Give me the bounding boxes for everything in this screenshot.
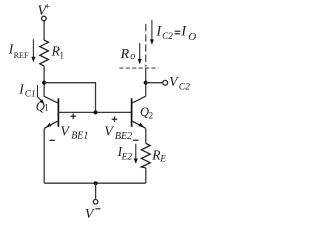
svg-text:E2: E2 — [121, 152, 133, 162]
label Q2 — [140, 105, 153, 120]
resistor RE — [141, 143, 150, 168]
label IE2 — [117, 144, 133, 162]
svg-text:C2: C2 — [179, 83, 190, 93]
svg-text:2: 2 — [149, 111, 154, 121]
wire Q2 collector up to VC2 node — [145, 69, 147, 97]
minus sign VBE1 — [50, 139, 55, 141]
svg-text:BE2: BE2 — [115, 131, 132, 142]
junction dot VC2 node — [144, 81, 148, 85]
dashed cut line (horizontal) for Ro — [119, 67, 158, 69]
current arrow IC1 (bent into collector) — [38, 85, 45, 104]
junction dot (collector of Q1 / tie to bases) — [42, 81, 46, 85]
label Ro — [120, 47, 136, 62]
current arrow IREF — [31, 39, 35, 62]
wire R1 to Q1 collector node — [43, 66, 45, 97]
label VC2 — [169, 74, 190, 92]
resistor R1 — [40, 40, 49, 66]
emitter arrow — [46, 123, 52, 127]
svg-text:V: V — [104, 125, 114, 140]
transistor Q1 (mirrored npn) — [44, 96, 58, 128]
junction dot at base node — [94, 110, 98, 114]
emitter arrow — [138, 123, 144, 127]
wire collector-base tie (horizontal + down to base node) — [44, 83, 95, 113]
label Q1 — [36, 99, 49, 113]
transistor Q2 (npn) — [132, 96, 146, 128]
minus sign VBE2 — [133, 139, 139, 141]
svg-text:E: E — [159, 154, 166, 164]
label RE — [151, 147, 166, 164]
current arrow IC2 — [150, 20, 154, 45]
bottom rail wire — [44, 182, 146, 184]
terminal V+ (open circle) — [42, 16, 47, 21]
wire RE to bottom rail — [145, 168, 147, 183]
base bar — [57, 98, 59, 127]
terminal V- (open circle) — [93, 200, 98, 205]
svg-text:BE1: BE1 — [71, 131, 88, 142]
base bar — [131, 98, 133, 127]
svg-text:C1: C1 — [25, 89, 36, 99]
arrow Ro (looking into collector) — [138, 43, 142, 64]
current arrow IE2 — [134, 144, 138, 164]
svg-text:1: 1 — [59, 51, 64, 61]
label V- — [85, 207, 101, 222]
label VBE2 — [104, 125, 132, 142]
stub to V- terminal — [95, 183, 97, 199]
wire V+ to R1 — [43, 21, 45, 40]
wire VC2 node to terminal — [146, 82, 163, 84]
svg-text:C2: C2 — [162, 31, 173, 41]
svg-text:REF: REF — [14, 51, 29, 60]
svg-text:V: V — [60, 125, 70, 140]
wire Q2 emitter to RE — [145, 128, 147, 143]
label R1 — [51, 43, 65, 61]
wire Q1 emitter down left side — [43, 128, 45, 183]
label VBE1 — [60, 125, 88, 142]
label V+ — [37, 3, 50, 20]
junction dot V- node — [94, 181, 98, 185]
svg-text:1: 1 — [44, 103, 49, 113]
collector lead — [44, 96, 58, 103]
svg-text:O: O — [188, 31, 196, 43]
terminal VC2 (open circle) — [163, 80, 168, 85]
label IREF — [8, 41, 29, 60]
svg-text:o: o — [130, 51, 135, 62]
svg-text:+: + — [45, 3, 50, 13]
svg-text:R: R — [120, 47, 130, 62]
collector lead — [132, 96, 146, 103]
dashed test-source line (vertical) — [145, 24, 147, 67]
plus sign VBE1 — [70, 113, 76, 119]
label IC2 = IO — [155, 24, 196, 43]
svg-text:V: V — [85, 207, 95, 221]
plus sign VBE2 — [112, 116, 118, 122]
emitter lead — [44, 121, 58, 129]
base wire Q1 to Q2 — [58, 111, 131, 113]
emitter lead — [132, 121, 146, 129]
label IC1 — [18, 82, 35, 100]
